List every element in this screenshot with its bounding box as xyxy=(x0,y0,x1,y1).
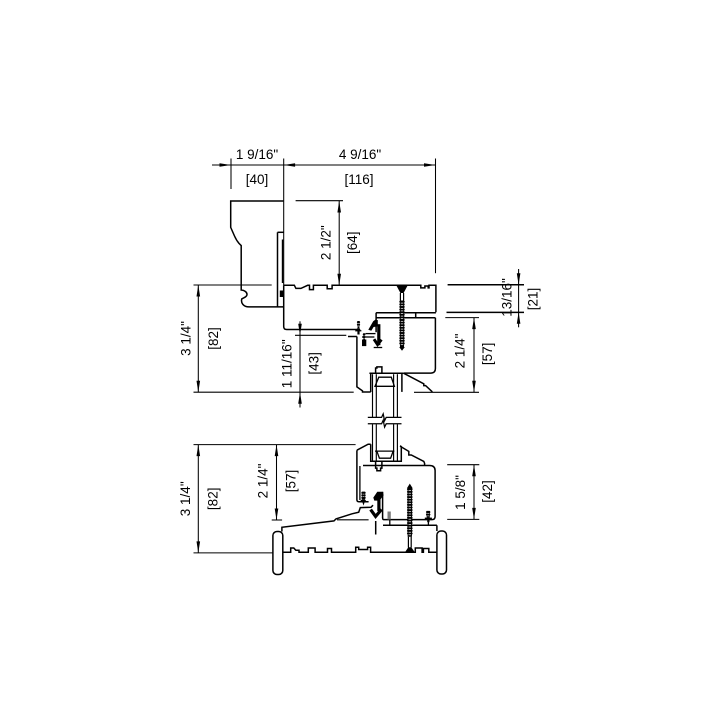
svg-text:2 1/4": 2 1/4" xyxy=(255,463,270,498)
svg-text:[82]: [82] xyxy=(206,327,221,350)
svg-text:[42]: [42] xyxy=(480,480,495,503)
svg-text:[57]: [57] xyxy=(283,470,298,493)
svg-text:[57]: [57] xyxy=(480,343,495,366)
svg-text:1 11/16": 1 11/16" xyxy=(279,339,294,388)
svg-text:3 1/4": 3 1/4" xyxy=(178,481,193,516)
svg-text:2 1/4": 2 1/4" xyxy=(453,333,468,368)
svg-text:3 1/4": 3 1/4" xyxy=(179,321,194,356)
svg-text:13/16": 13/16" xyxy=(499,278,514,317)
svg-text:[43]: [43] xyxy=(306,352,321,375)
svg-text:2 1/2": 2 1/2" xyxy=(318,225,333,260)
svg-text:1 9/16": 1 9/16" xyxy=(236,147,279,162)
svg-text:[40]: [40] xyxy=(246,172,269,187)
svg-text:[82]: [82] xyxy=(205,488,220,511)
svg-text:4 9/16": 4 9/16" xyxy=(339,147,382,162)
svg-text:[21]: [21] xyxy=(525,288,540,311)
svg-text:[64]: [64] xyxy=(345,231,360,254)
svg-text:[116]: [116] xyxy=(344,172,373,187)
svg-text:1 5/8": 1 5/8" xyxy=(453,475,468,510)
